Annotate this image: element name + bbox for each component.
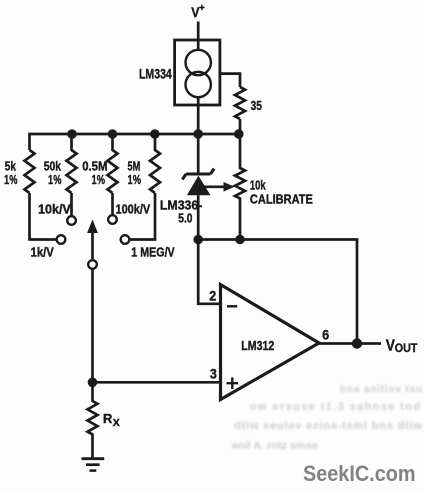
svg-text:bna anitlov tsu: bna anitlov tsu <box>340 384 422 395</box>
junction bus at 50k <box>67 129 77 139</box>
junction output node <box>352 338 362 348</box>
svg-text:0.5M: 0.5M <box>82 159 107 173</box>
svg-text:2: 2 <box>209 289 216 304</box>
terminal 1k/V <box>31 235 66 260</box>
node VOUT <box>386 337 418 355</box>
svg-text:5k: 5k <box>5 159 16 173</box>
ground <box>82 459 105 471</box>
svg-text:SeekIC.com: SeekIC.com <box>303 461 416 486</box>
junction zener bottom <box>193 235 203 245</box>
resistor 5M 1% <box>128 134 161 193</box>
svg-text:CALIBRATE: CALIBRATE <box>250 192 313 206</box>
svg-text:50k: 50k <box>44 159 61 173</box>
wire LM334 bottom to bus <box>197 97 200 134</box>
svg-text:LM312: LM312 <box>241 338 274 353</box>
svg-text:X: X <box>113 417 120 429</box>
wire 5M to 1 MEG/V terminal <box>130 193 155 240</box>
svg-text:6: 6 <box>322 328 329 343</box>
junction bus at 0.5M <box>108 129 118 139</box>
wire inverting input pin 2 <box>198 240 220 304</box>
junction bus at calibrate pot <box>234 129 244 139</box>
wire bus <box>30 134 241 150</box>
svg-text:5M: 5M <box>128 159 141 173</box>
svg-text:35: 35 <box>251 99 262 113</box>
svg-text:LM334: LM334 <box>139 66 172 81</box>
svg-text:1%: 1% <box>4 173 18 187</box>
resistor RX <box>88 382 120 458</box>
svg-text:1 MEG/V: 1 MEG/V <box>131 246 175 260</box>
svg-text:OUT: OUT <box>395 341 418 355</box>
wire LM334 output tap to resistor 35 <box>220 74 240 87</box>
wire resistor 35 to bus <box>239 119 242 134</box>
resistor 35 <box>235 87 262 119</box>
wire 5k to 1k/V terminal <box>30 193 56 240</box>
terminal 100k/V <box>108 203 151 224</box>
svg-text:1k/V: 1k/V <box>31 246 55 260</box>
svg-text:enil A. rotz smse: enil A. rotz smse <box>232 440 318 452</box>
wire 0.5M to 100k/V terminal <box>111 193 114 215</box>
wire wiper to pin3 node <box>91 270 94 383</box>
svg-text:100k/V: 100k/V <box>116 203 151 217</box>
terminal 10k/V <box>38 203 76 225</box>
svg-text:1%: 1% <box>48 173 62 187</box>
selector wiper arrow <box>87 220 98 269</box>
svg-text:10k: 10k <box>250 179 266 193</box>
svg-text:10k/V: 10k/V <box>38 203 71 217</box>
node V+ <box>191 3 205 20</box>
wire non-inverting input pin 3 <box>93 381 221 384</box>
resistor 5k 1% <box>4 150 35 193</box>
current source LM334 <box>139 40 220 105</box>
junction bus at 5M <box>150 129 160 139</box>
terminal 1 MEG/V <box>121 235 176 260</box>
svg-text:+: + <box>199 3 205 14</box>
op-amp LM312 <box>209 285 329 400</box>
svg-text:1%: 1% <box>92 173 106 187</box>
svg-text:R: R <box>103 411 113 426</box>
svg-text:5.0: 5.0 <box>178 211 192 225</box>
wire output pin 6 to VOUT <box>319 342 381 345</box>
potentiometer 10k CALIBRATE <box>202 134 313 240</box>
svg-text:dtiw seulav ezina-tsml bns dti: dtiw seulav ezina-tsml bns dtiw <box>234 420 422 432</box>
zener diode LM336-5.0 <box>160 134 214 240</box>
wire V+ to LM334 <box>197 22 200 52</box>
resistor 0.5M 1% <box>82 134 117 193</box>
junction pin3 node <box>88 378 98 388</box>
svg-text:3: 3 <box>210 367 217 382</box>
resistor 50k 1% <box>44 134 77 193</box>
junction pot bottom <box>235 235 245 245</box>
wire 50k to 10k/V terminal <box>70 193 73 216</box>
wire feedback from zener node to output <box>198 240 357 344</box>
junction bus at zener <box>193 129 203 139</box>
svg-text:1%: 1% <box>128 173 142 187</box>
